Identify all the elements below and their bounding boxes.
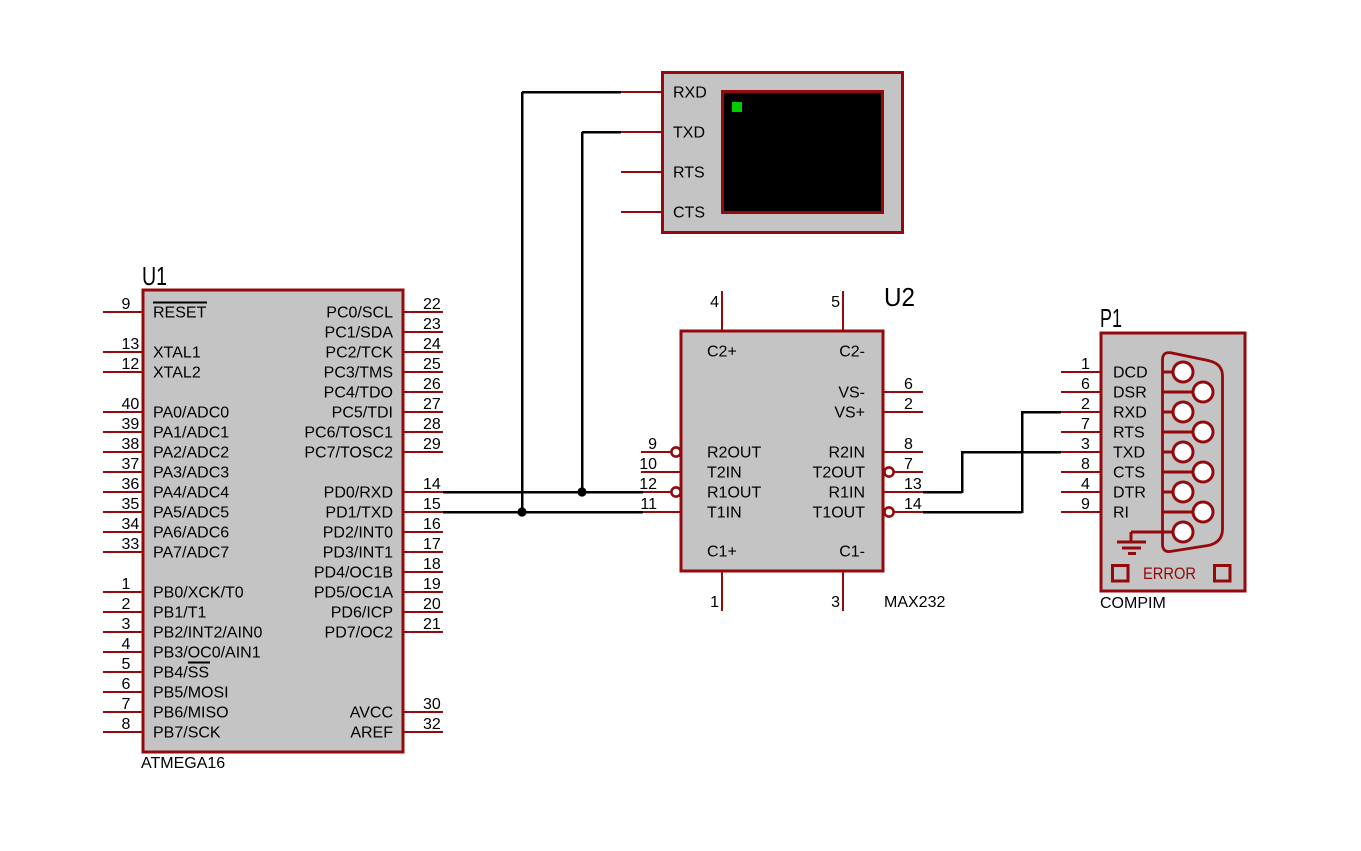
U1 pin 19 PD5/OC1A — [314, 576, 443, 602]
svg-text:PC6/TOSC1: PC6/TOSC1 — [304, 425, 393, 442]
U1 pin 21 PD7/OC2 — [325, 616, 443, 642]
svg-text:20: 20 — [423, 596, 441, 613]
svg-text:12: 12 — [122, 356, 140, 373]
svg-text:18: 18 — [423, 556, 441, 573]
U2 pin 7 T2OUT — [813, 456, 923, 482]
svg-text:C1+: C1+ — [707, 544, 737, 561]
svg-text:PB5/MOSI: PB5/MOSI — [153, 685, 229, 702]
svg-text:1: 1 — [710, 594, 719, 611]
svg-text:T2OUT: T2OUT — [813, 465, 866, 482]
U1 pin 18 PD4/OC1B — [314, 556, 443, 582]
svg-text:40: 40 — [122, 396, 140, 413]
U1 pin 9 RESET — [103, 296, 207, 322]
P1 pin 8 CTS — [1061, 456, 1145, 482]
svg-text:RI: RI — [1113, 505, 1129, 522]
svg-text:MAX232: MAX232 — [884, 594, 945, 611]
svg-text:PA0/ADC0: PA0/ADC0 — [153, 405, 229, 422]
svg-text:13: 13 — [904, 476, 922, 493]
svg-text:PD1/TXD: PD1/TXD — [325, 505, 393, 522]
svg-text:C1-: C1- — [839, 544, 865, 561]
wire U2 R1IN to P1 TXD segment 3 — [962, 451, 1061, 454]
wire U2 T1OUT to P1 RXD segment 3 — [1022, 411, 1061, 414]
P1 pin 6 DSR — [1061, 376, 1147, 402]
wire U1 PD1/TXD to U2 T1IN — [443, 511, 643, 514]
U2 pin 1 C1+ — [707, 544, 737, 612]
junction dot RXD net — [577, 487, 586, 496]
P1 DB9 hole 4 — [1162, 422, 1213, 442]
P1 pin 7 RTS — [1061, 416, 1145, 442]
terminal pin RTS — [621, 165, 705, 182]
svg-text:24: 24 — [423, 336, 441, 353]
U1 pin 5 PB4/SS — [103, 656, 209, 682]
U1 pin 36 PA4/ADC4 — [103, 476, 229, 502]
svg-text:38: 38 — [122, 436, 140, 453]
svg-text:VS-: VS- — [838, 385, 865, 402]
U2 reference label — [884, 282, 915, 312]
P1 DB9 hole 5 — [1162, 442, 1193, 462]
P1 pin 3 TXD — [1061, 436, 1145, 462]
svg-text:8: 8 — [904, 436, 913, 453]
svg-text:RXD: RXD — [673, 85, 707, 102]
svg-text:RTS: RTS — [1113, 425, 1145, 442]
U1 pin 22 PC0/SCL — [326, 296, 443, 322]
svg-text:T2IN: T2IN — [707, 465, 742, 482]
U1 pin 35 PA5/ADC5 — [103, 496, 229, 522]
U1 pin 17 PD3/INT1 — [323, 536, 443, 562]
svg-text:PA4/ADC4: PA4/ADC4 — [153, 485, 229, 502]
svg-text:PD7/OC2: PD7/OC2 — [325, 625, 394, 642]
U2 pin 2 VS+ — [834, 396, 923, 422]
svg-text:R1OUT: R1OUT — [707, 485, 761, 502]
svg-text:RESET: RESET — [153, 305, 207, 322]
svg-text:6: 6 — [1081, 376, 1090, 393]
svg-text:ERROR: ERROR — [1143, 565, 1196, 583]
svg-text:XTAL1: XTAL1 — [153, 345, 201, 362]
P1 DB9 hole 9 — [1162, 522, 1193, 542]
virtual terminal screen — [723, 92, 883, 213]
svg-text:RTS: RTS — [673, 165, 705, 182]
P1 body — [1101, 333, 1245, 591]
U2 pin 9 R2OUT — [641, 436, 761, 462]
svg-text:37: 37 — [122, 456, 140, 473]
terminal pin CTS — [621, 205, 705, 222]
wire terminal RXD horizontal — [522, 91, 621, 94]
svg-text:34: 34 — [122, 516, 140, 533]
U1 pin 40 PA0/ADC0 — [103, 396, 229, 422]
svg-text:U1: U1 — [142, 261, 167, 291]
svg-text:DCD: DCD — [1113, 365, 1148, 382]
U1 RESET overline — [153, 302, 207, 304]
U1 pin 2 PB1/T1 — [103, 596, 206, 622]
U1 pin 25 PC3/TMS — [324, 356, 443, 382]
U1 pin 26 PC4/TDO — [324, 376, 443, 402]
svg-text:DTR: DTR — [1113, 485, 1146, 502]
svg-text:AREF: AREF — [350, 725, 393, 742]
svg-text:PD4/OC1B: PD4/OC1B — [314, 565, 393, 582]
U2 body — [681, 331, 883, 571]
P1 pin 2 RXD — [1061, 396, 1147, 422]
U2 pin 12 R1OUT — [639, 476, 761, 502]
svg-text:T1IN: T1IN — [707, 505, 742, 522]
svg-text:PB4/SS: PB4/SS — [153, 665, 209, 682]
wire U2 R1IN to P1 TXD segment 2 — [961, 451, 964, 493]
svg-text:PB0/XCK/T0: PB0/XCK/T0 — [153, 585, 244, 602]
U1 reference label — [142, 261, 167, 291]
svg-text:PB1/T1: PB1/T1 — [153, 605, 206, 622]
U1 pin 15 PD1/TXD — [325, 496, 443, 522]
U1 pin 4 PB3/OC0/AIN1 — [103, 636, 261, 662]
U2 pin 6 VS- — [838, 376, 923, 402]
svg-text:33: 33 — [122, 536, 140, 553]
svg-text:28: 28 — [423, 416, 441, 433]
P1 DB9 hole 6 — [1162, 462, 1213, 482]
svg-text:PB2/INT2/AIN0: PB2/INT2/AIN0 — [153, 625, 262, 642]
wire vertical terminal TXD to U1 RXD net — [581, 132, 584, 492]
wire U1 PD0/RXD to U2 R1OUT — [443, 491, 643, 494]
svg-text:PC5/TDI: PC5/TDI — [332, 405, 393, 422]
P1 ERROR label — [1143, 565, 1196, 583]
svg-text:PA7/ADC7: PA7/ADC7 — [153, 545, 229, 562]
svg-text:2: 2 — [122, 596, 131, 613]
svg-text:25: 25 — [423, 356, 441, 373]
svg-text:PD6/ICP: PD6/ICP — [331, 605, 393, 622]
junction dot TXD net — [517, 507, 526, 516]
U1 pin 6 PB5/MOSI — [103, 676, 229, 702]
svg-text:P1: P1 — [1100, 303, 1122, 333]
svg-text:8: 8 — [122, 716, 131, 733]
U2 pin 11 T1IN — [640, 496, 741, 522]
U1 pin 37 PA3/ADC3 — [103, 456, 229, 482]
P1 value label COMPIM — [1100, 595, 1166, 612]
svg-text:TXD: TXD — [1113, 445, 1145, 462]
svg-text:PC1/SDA: PC1/SDA — [325, 325, 394, 342]
svg-text:7: 7 — [904, 456, 913, 473]
svg-text:1: 1 — [1081, 356, 1090, 373]
wire U2 R1IN to P1 TXD segment 1 — [923, 491, 962, 494]
svg-text:PA2/ADC2: PA2/ADC2 — [153, 445, 229, 462]
svg-text:4: 4 — [710, 294, 719, 311]
U1 pin 28 PC6/TOSC1 — [304, 416, 443, 442]
U1 pin 1 PB0/XCK/T0 — [103, 576, 244, 602]
svg-text:DSR: DSR — [1113, 385, 1147, 402]
svg-text:2: 2 — [1081, 396, 1090, 413]
svg-text:ATMEGA16: ATMEGA16 — [141, 755, 225, 772]
U2 pin 14 T1OUT — [813, 496, 923, 522]
svg-text:29: 29 — [423, 436, 441, 453]
svg-text:PD2/INT0: PD2/INT0 — [323, 525, 393, 542]
svg-text:COMPIM: COMPIM — [1100, 595, 1166, 612]
U1 pin 8 PB7/SCK — [103, 716, 221, 742]
P1 DB9 hole 1 — [1162, 362, 1193, 382]
U1 pin 39 PA1/ADC1 — [103, 416, 229, 442]
svg-text:27: 27 — [423, 396, 441, 413]
U1 pin 38 PA2/ADC2 — [103, 436, 229, 462]
svg-text:6: 6 — [904, 376, 913, 393]
svg-text:T1OUT: T1OUT — [813, 505, 866, 522]
svg-text:3: 3 — [831, 594, 840, 611]
svg-text:RXD: RXD — [1113, 405, 1147, 422]
U1 pin 29 PC7/TOSC2 — [304, 436, 443, 462]
U2 pin 8 R2IN — [829, 436, 923, 462]
P1 ground symbol — [1117, 532, 1162, 554]
U1 pin 33 PA7/ADC7 — [103, 536, 229, 562]
svg-text:5: 5 — [122, 656, 131, 673]
svg-text:1: 1 — [122, 576, 131, 593]
svg-text:PB6/MISO: PB6/MISO — [153, 705, 229, 722]
svg-text:2: 2 — [904, 396, 913, 413]
virtual terminal VT1 body — [663, 73, 903, 233]
terminal pin RXD — [621, 85, 707, 102]
P1 DB9 hole 2 — [1162, 382, 1213, 402]
svg-text:19: 19 — [423, 576, 441, 593]
svg-text:PD0/RXD: PD0/RXD — [324, 485, 393, 502]
P1 pin 4 DTR — [1061, 476, 1146, 502]
svg-text:PB7/SCK: PB7/SCK — [153, 725, 221, 742]
svg-text:C2-: C2- — [839, 344, 865, 361]
svg-text:TXD: TXD — [673, 125, 705, 142]
svg-text:CTS: CTS — [673, 205, 705, 222]
P1 reference label — [1100, 303, 1122, 333]
svg-text:R2IN: R2IN — [829, 445, 865, 462]
U1 pin 3 PB2/INT2/AIN0 — [103, 616, 262, 642]
svg-text:PA6/ADC6: PA6/ADC6 — [153, 525, 229, 542]
svg-text:11: 11 — [640, 496, 657, 513]
svg-text:PC3/TMS: PC3/TMS — [324, 365, 393, 382]
P1 error indicator left square — [1113, 566, 1129, 582]
svg-text:PD3/INT1: PD3/INT1 — [323, 545, 393, 562]
svg-text:PA3/ADC3: PA3/ADC3 — [153, 465, 229, 482]
wire vertical terminal RXD to U1 TXD net — [521, 92, 524, 512]
svg-text:PC4/TDO: PC4/TDO — [324, 385, 393, 402]
svg-text:35: 35 — [122, 496, 140, 513]
svg-text:9: 9 — [648, 436, 657, 453]
svg-text:14: 14 — [904, 496, 922, 513]
wire U2 T1OUT to P1 RXD segment 1 — [923, 511, 1022, 514]
wire terminal TXD horizontal — [582, 131, 621, 134]
svg-text:PC2/TCK: PC2/TCK — [325, 345, 393, 362]
U1 pin 7 PB6/MISO — [103, 696, 229, 722]
svg-text:9: 9 — [122, 296, 131, 313]
svg-text:9: 9 — [1081, 496, 1090, 513]
svg-text:36: 36 — [122, 476, 140, 493]
svg-text:26: 26 — [423, 376, 441, 393]
svg-text:PC0/SCL: PC0/SCL — [326, 305, 393, 322]
U1 pin 14 PD0/RXD — [324, 476, 443, 502]
svg-text:PD5/OC1A: PD5/OC1A — [314, 585, 393, 602]
svg-text:12: 12 — [639, 476, 657, 493]
svg-text:22: 22 — [423, 296, 441, 313]
U1 pin 34 PA6/ADC6 — [103, 516, 229, 542]
U2 pin 13 R1IN — [829, 476, 923, 502]
svg-text:30: 30 — [423, 696, 441, 713]
P1 pin 9 RI — [1061, 496, 1129, 522]
svg-text:7: 7 — [1081, 416, 1090, 433]
U1 pin 27 PC5/TDI — [332, 396, 443, 422]
svg-text:3: 3 — [122, 616, 131, 633]
U1 pin 32 AREF — [350, 716, 443, 742]
svg-text:13: 13 — [122, 336, 140, 353]
svg-text:4: 4 — [1081, 476, 1090, 493]
P1 error indicator right square — [1215, 566, 1231, 582]
svg-text:14: 14 — [423, 476, 441, 493]
U2 pin 10 T2IN — [639, 456, 741, 482]
svg-text:PA1/ADC1: PA1/ADC1 — [153, 425, 229, 442]
svg-text:PC7/TOSC2: PC7/TOSC2 — [304, 445, 393, 462]
svg-text:XTAL2: XTAL2 — [153, 365, 201, 382]
svg-text:CTS: CTS — [1113, 465, 1145, 482]
P1 DB9 hole 3 — [1162, 402, 1193, 422]
svg-text:17: 17 — [423, 536, 441, 553]
U2 pin 5 C2- — [831, 291, 865, 361]
U1 value label ATMEGA16 — [141, 755, 225, 772]
P1 DB9 hole 7 — [1162, 482, 1193, 502]
svg-text:23: 23 — [423, 316, 441, 333]
svg-text:8: 8 — [1081, 456, 1090, 473]
svg-text:39: 39 — [122, 416, 140, 433]
svg-text:C2+: C2+ — [707, 344, 737, 361]
U1 pin 20 PD6/ICP — [331, 596, 443, 622]
svg-text:4: 4 — [122, 636, 131, 653]
U1 pin 30 AVCC — [350, 696, 443, 722]
svg-text:10: 10 — [639, 456, 657, 473]
svg-text:7: 7 — [122, 696, 131, 713]
P1 DB9 connector outline — [1163, 353, 1223, 552]
svg-text:6: 6 — [122, 676, 131, 693]
svg-text:R1IN: R1IN — [829, 485, 865, 502]
U1 body — [143, 290, 403, 752]
svg-text:PA5/ADC5: PA5/ADC5 — [153, 505, 229, 522]
U2 pin 3 C1- — [831, 544, 865, 612]
svg-text:32: 32 — [423, 716, 441, 733]
U1 pin 12 XTAL2 — [103, 356, 201, 382]
U1 pin 23 PC1/SDA — [325, 316, 443, 342]
P1 DB9 hole 8 — [1162, 502, 1213, 522]
svg-text:R2OUT: R2OUT — [707, 445, 761, 462]
svg-text:15: 15 — [423, 496, 441, 513]
wire U2 T1OUT to P1 RXD segment 2 — [1021, 411, 1024, 513]
svg-text:PB3/OC0/AIN1: PB3/OC0/AIN1 — [153, 645, 261, 662]
svg-text:3: 3 — [1081, 436, 1090, 453]
svg-text:16: 16 — [423, 516, 441, 533]
U1 pin 24 PC2/TCK — [325, 336, 443, 362]
virtual terminal cursor — [732, 102, 742, 112]
svg-text:AVCC: AVCC — [350, 705, 393, 722]
svg-text:5: 5 — [831, 294, 840, 311]
terminal pin TXD — [621, 125, 705, 142]
U2 pin 4 C2+ — [707, 291, 737, 361]
U1 pin 13 XTAL1 — [103, 336, 201, 362]
U1 pin 16 PD2/INT0 — [323, 516, 443, 542]
U2 value label MAX232 — [884, 594, 945, 611]
svg-text:U2: U2 — [884, 282, 915, 312]
P1 pin 1 DCD — [1061, 356, 1148, 382]
U1 PB4/SS overline — [188, 662, 210, 664]
svg-text:VS+: VS+ — [834, 405, 865, 422]
svg-text:21: 21 — [423, 616, 441, 633]
